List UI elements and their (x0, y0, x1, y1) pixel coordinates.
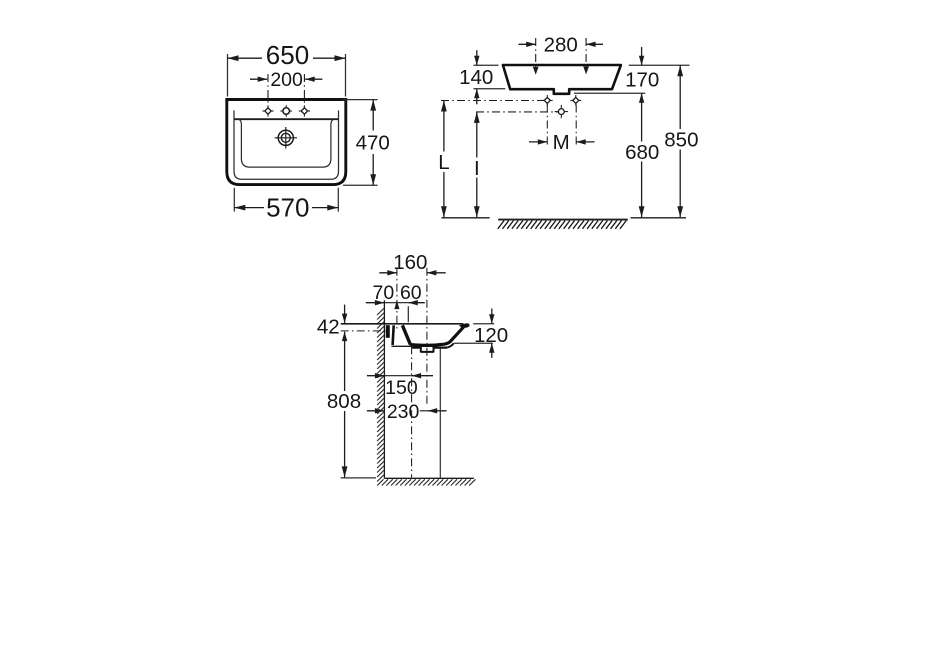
basin back section bar (386, 325, 390, 338)
dim 650 line (228, 55, 346, 61)
wall face line (383, 300, 385, 478)
svg-text:570: 570 (266, 192, 309, 222)
dim 150 text (385, 377, 418, 399)
dim M leaders (547, 105, 576, 147)
svg-text:L: L (438, 151, 449, 174)
dim 850 text (664, 129, 698, 152)
dim 280 text (544, 34, 578, 57)
dim 570 text (266, 192, 309, 222)
svg-text:160: 160 (393, 251, 427, 274)
fixing hole axis section (341, 330, 390, 332)
svg-text:60: 60 (400, 282, 422, 304)
bowl outline (239, 119, 334, 167)
dim 120 text (474, 324, 508, 347)
dim 680 text (625, 141, 659, 164)
floor line left (442, 217, 490, 219)
dim 200 text (270, 69, 303, 91)
svg-text:170: 170 (625, 69, 659, 92)
dim 230 text (387, 401, 420, 423)
basin underside (391, 343, 453, 347)
dim 808 line (342, 332, 348, 478)
dim 808 bottom extension (341, 477, 376, 479)
dim 70-60 line (366, 300, 425, 305)
dim 140 extension lines (473, 65, 505, 88)
dim 170 extension bottom (574, 92, 645, 94)
svg-text:140: 140 (459, 66, 493, 89)
svg-text:42: 42 (317, 316, 340, 339)
svg-text:150: 150 (385, 377, 418, 399)
dim 570 extension lines (234, 188, 338, 212)
dim 70 text (373, 282, 395, 304)
dim M text (553, 131, 570, 154)
faucet hole centre (280, 105, 292, 117)
drain axis (426, 268, 428, 407)
basin top surface (341, 323, 464, 325)
dim 280 leader right (583, 38, 589, 74)
svg-text:850: 850 (664, 129, 698, 152)
dim 470 text (356, 132, 390, 155)
front edge vertical (439, 348, 441, 478)
floor line right (631, 217, 687, 219)
dim 170 text (625, 69, 659, 92)
outlet axis (476, 111, 558, 113)
dim 808 text (327, 390, 361, 413)
bowl section profile (410, 326, 464, 345)
centerline left hole (267, 74, 269, 108)
dim 150 line (367, 373, 433, 378)
siphon flange (421, 347, 434, 352)
wall hatching (377, 308, 384, 482)
dim 42 arrows (342, 305, 347, 342)
dim 470 line (370, 100, 376, 186)
dim 140 arrows (474, 50, 479, 104)
dim 60 extension (407, 306, 409, 322)
dim 650 extension lines (228, 54, 346, 97)
dim I line (474, 112, 480, 217)
dim 680 line (639, 93, 645, 217)
drain symbol (275, 127, 297, 149)
svg-text:200: 200 (270, 69, 303, 91)
svg-text:120: 120 (474, 324, 508, 347)
dim 120 arrows (489, 309, 494, 358)
dim 200 line (250, 77, 322, 82)
floor hatching (498, 220, 628, 229)
dim 120 extension top (473, 323, 494, 325)
svg-text:I: I (474, 157, 480, 180)
faucet hole right (299, 105, 310, 116)
tap hole axis (394, 268, 399, 332)
dim L line (441, 101, 447, 218)
dim L text (438, 151, 449, 174)
dim M arrows (529, 139, 595, 144)
dim 140 text (459, 66, 493, 89)
water outlet symbol (555, 105, 568, 118)
dim 850 line (677, 65, 683, 217)
outlet axis vertical (411, 346, 413, 477)
front rim tip (459, 323, 470, 328)
svg-text:808: 808 (327, 390, 361, 413)
dim 170 arrow (639, 47, 644, 65)
dim 570 line (234, 205, 338, 211)
faucet hole left (262, 105, 273, 116)
dim 160 text (393, 251, 427, 274)
dim 170 extension top (629, 64, 690, 66)
dim 280 arrows (519, 42, 604, 47)
dim 280 leader left (533, 38, 539, 75)
dim 230 line (367, 408, 447, 413)
dim 42 text (317, 316, 340, 339)
floor hatching section (377, 479, 475, 485)
rim shelf line (234, 118, 339, 120)
svg-text:70: 70 (373, 282, 395, 304)
svg-text:650: 650 (266, 40, 309, 70)
washbasin front view outer outline (227, 100, 346, 185)
dim 60 text (400, 282, 422, 304)
tap deck section (393, 325, 411, 345)
fixing holes axis (441, 100, 544, 102)
fixing hole right (570, 95, 581, 106)
basin side profile (503, 65, 621, 94)
dim 470 extension lines (342, 100, 378, 186)
floor line section (384, 477, 474, 479)
svg-text:280: 280 (544, 34, 578, 57)
centerline right hole (303, 74, 305, 108)
washbasin front view inner outline (234, 110, 339, 179)
svg-text:680: 680 (625, 141, 659, 164)
dim 160 arrows (379, 270, 445, 275)
svg-text:M: M (553, 131, 570, 154)
dim 650 text (266, 40, 309, 70)
svg-text:230: 230 (387, 401, 420, 423)
fixing hole left (542, 95, 553, 106)
dim I text (474, 157, 480, 180)
svg-text:470: 470 (356, 132, 390, 155)
dim 120 extension bottom (454, 342, 493, 344)
